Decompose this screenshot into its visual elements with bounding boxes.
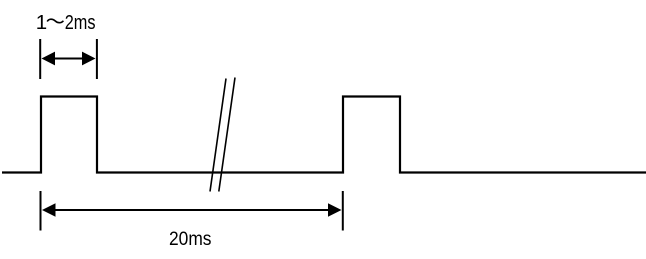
arrowhead left (20ms) (42, 203, 56, 217)
break symbol slash 1 (210, 79, 226, 192)
dimension tick right (20ms) (342, 191, 344, 231)
dimension tick left (1-2ms) (39, 39, 41, 79)
signal trace: PWM pulse waveform with two pulses (2, 97, 646, 173)
arrowhead left (1-2ms) (42, 52, 56, 66)
dimension tick right (1-2ms) (96, 39, 98, 79)
svg-text:2ms: 2ms (65, 11, 96, 34)
dimension arrow shaft (20ms) (54, 209, 330, 211)
label 1~2ms : wave dash (47, 19, 63, 23)
dimension tick left (20ms) (40, 191, 42, 231)
break symbol slash 2 (219, 78, 235, 192)
svg-text:1: 1 (36, 11, 47, 34)
dimension arrow shaft (1-2ms) (53, 58, 85, 60)
arrowhead right (20ms) (328, 203, 342, 217)
svg-text:20ms: 20ms (169, 228, 212, 250)
arrowhead right (1-2ms) (82, 52, 96, 66)
